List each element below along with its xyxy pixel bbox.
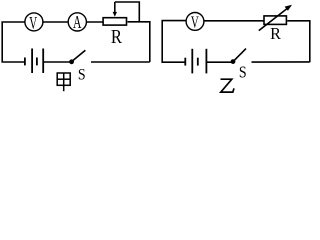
- svg-text:S: S: [78, 67, 86, 84]
- svg-text:V: V: [191, 13, 199, 32]
- battery B1 short plate 2: [36, 58, 38, 66]
- wire: slider loop up-right-down: [115, 2, 140, 22]
- label R (circuit 2): [270, 24, 281, 43]
- battery B2 short plate 2: [197, 58, 199, 66]
- svg-text:R: R: [270, 24, 281, 43]
- switch S1 dot: [69, 59, 74, 64]
- wire: battery to switch dot: [43, 61, 70, 63]
- wire: R1 output right and down: [128, 22, 150, 62]
- rheostat R2 (box): [264, 16, 286, 25]
- wire: battery 2 to switch dot: [207, 61, 232, 63]
- label 甲 (circuit 1): [57, 73, 70, 91]
- wire: V1 to A1: [43, 21, 67, 23]
- wire: bottom of circuit 2 (right corner to switch): [252, 61, 310, 63]
- wire: bottom of circuit 1 (right corner to switch): [91, 61, 150, 63]
- svg-text:V: V: [29, 14, 37, 33]
- label 乙 (circuit 2): [221, 79, 235, 92]
- wire: R2 output right and down: [287, 21, 310, 63]
- svg-text:R: R: [111, 26, 123, 48]
- battery B2 long plate 2: [205, 49, 207, 74]
- battery B1 long plate 2: [42, 49, 44, 74]
- battery B2 long plate 1: [191, 49, 193, 74]
- svg-text:A: A: [73, 14, 82, 33]
- battery B1 short plate 1: [24, 58, 26, 66]
- battery B2 short plate 1: [184, 58, 186, 66]
- switch S2 dot: [231, 59, 236, 64]
- label R (circuit 1): [111, 26, 123, 48]
- rheostat R2 diagonal arrow: [259, 7, 289, 30]
- ammeter A1: [68, 13, 86, 31]
- rheostat R1 slider arrow: [114, 2, 116, 13]
- switch S2 lever: [234, 49, 246, 61]
- voltmeter V2: [186, 13, 204, 31]
- wire: left side of circuit 1 (top stub + left vertical + bottom stub to battery): [2, 22, 25, 62]
- svg-text:S: S: [239, 63, 247, 82]
- label S (circuit 2): [239, 63, 247, 82]
- wire: V2 to rheostat R2: [204, 20, 264, 22]
- rheostat R1 (box): [103, 18, 126, 25]
- switch S1 lever: [73, 50, 86, 61]
- wire: left side of circuit 2 (top stub + left vertical + bottom stub to battery): [162, 21, 186, 63]
- label S (circuit 1): [78, 67, 86, 84]
- wire: A1 to rheostat R1: [87, 21, 103, 23]
- battery B1 long plate 1: [31, 49, 33, 74]
- voltmeter V1: [25, 13, 43, 31]
